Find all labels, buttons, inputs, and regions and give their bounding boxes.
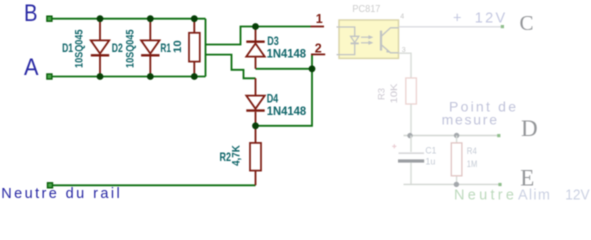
label C1 xyxy=(425,145,436,156)
junction R1 top xyxy=(191,15,198,22)
label + 12V xyxy=(453,11,506,27)
junction D4 bottom / R2 top xyxy=(252,122,259,129)
svg-text:1N4148: 1N4148 xyxy=(267,106,307,118)
svg-text:10SQ045: 10SQ045 xyxy=(74,30,86,69)
pin number 4 xyxy=(400,14,404,21)
svg-text:D2: D2 xyxy=(112,43,123,55)
svg-text:10SQ045: 10SQ045 xyxy=(125,30,137,69)
svg-text:10: 10 xyxy=(172,40,184,53)
label D2 xyxy=(112,43,123,55)
junction (faded) R4 bottom xyxy=(454,182,459,187)
junction R1 bottom xyxy=(191,73,198,80)
opto light arrows xyxy=(361,36,372,44)
junction (faded) R4 top xyxy=(454,133,459,138)
node B label xyxy=(24,0,38,27)
svg-text:C: C xyxy=(520,11,534,35)
svg-text:12V: 12V xyxy=(565,187,590,202)
label mesure xyxy=(442,112,498,128)
svg-text:mesure: mesure xyxy=(442,112,498,128)
wire riser x205.5 xyxy=(205,19,207,77)
junction D1 bottom xyxy=(97,73,104,80)
svg-text:R4: R4 xyxy=(467,146,477,157)
svg-text:D: D xyxy=(521,116,538,141)
pin number 1 (opto) xyxy=(311,12,325,27)
pin number 3 xyxy=(402,47,406,54)
diode D4 xyxy=(246,78,264,126)
junction D2 bottom xyxy=(147,73,154,80)
wire measure bus xyxy=(404,135,499,137)
label D1 xyxy=(62,43,73,55)
diode D2 xyxy=(141,19,159,77)
svg-text:C1: C1 xyxy=(425,145,436,156)
svg-text:Neutre: Neutre xyxy=(454,187,514,202)
port E xyxy=(520,166,534,191)
pin number 2 (opto) xyxy=(311,42,325,56)
svg-text:1: 1 xyxy=(316,12,323,26)
svg-text:1u: 1u xyxy=(425,156,435,167)
svg-text:+: + xyxy=(453,11,461,27)
wire pin3 to R3 xyxy=(399,53,411,78)
node Neutre du rail label xyxy=(1,186,120,202)
wire upper stub to D3 xyxy=(206,27,311,45)
label Alim xyxy=(518,187,550,203)
junction D1 top xyxy=(97,15,104,22)
svg-text:10K: 10K xyxy=(389,83,400,104)
svg-text:12V: 12V xyxy=(475,11,506,27)
svg-text:PC817: PC817 xyxy=(352,3,380,15)
port C xyxy=(520,11,534,35)
svg-text:4,7K: 4,7K xyxy=(231,145,243,166)
label D4 xyxy=(267,94,279,106)
svg-text:D1: D1 xyxy=(62,43,73,55)
svg-text:Alim: Alim xyxy=(518,187,550,202)
label Point de xyxy=(449,99,516,115)
junction pin2 node xyxy=(309,65,316,72)
value 1N4148 (D4) xyxy=(267,106,307,118)
svg-text:B: B xyxy=(24,0,38,27)
diode D3 xyxy=(246,27,264,69)
opto LED xyxy=(337,27,359,55)
junction (faded) C1/R3 xyxy=(407,133,412,138)
junction D2 top xyxy=(147,15,154,22)
svg-text:1N4148: 1N4148 xyxy=(267,49,307,61)
pin B xyxy=(47,16,52,21)
svg-text:R1: R1 xyxy=(160,43,171,55)
svg-text:R2: R2 xyxy=(220,152,232,164)
svg-text:A: A xyxy=(24,54,39,81)
svg-text:R3: R3 xyxy=(377,88,388,100)
label R4 xyxy=(467,146,477,157)
label Neutre (alim) xyxy=(454,187,514,203)
capacitor C1 xyxy=(392,136,424,185)
label R1 xyxy=(160,43,171,55)
value 4,7K (R2) xyxy=(231,145,243,166)
wire neutre alim bus xyxy=(404,183,500,185)
pin end +12V xyxy=(501,25,504,28)
node A label xyxy=(24,54,39,81)
wire right loop down xyxy=(256,69,313,126)
pin end D bus xyxy=(497,134,500,137)
label R3 xyxy=(377,88,388,100)
value 10K (R3) xyxy=(389,83,400,104)
opto transistor xyxy=(381,28,399,53)
label R2 xyxy=(220,152,232,164)
resistor R2 xyxy=(250,126,261,186)
wire A bottom rail xyxy=(52,76,206,78)
wire bottom rail from R2 xyxy=(53,184,256,186)
value 1M (R4) xyxy=(467,159,478,170)
resistor R3 xyxy=(406,78,417,134)
wire D3 bottom to pin2 riser xyxy=(256,54,313,68)
svg-text:4: 4 xyxy=(400,14,404,21)
diode D1 xyxy=(91,19,109,77)
value 1N4148 (D3) xyxy=(267,49,307,61)
wire lower stub staircase to D4 xyxy=(206,55,256,79)
value 10SQ045 (D1) xyxy=(74,30,86,69)
wire +12V (faded) xyxy=(399,26,502,28)
pin A xyxy=(47,74,52,79)
pin end E bus xyxy=(498,183,501,186)
svg-text:2: 2 xyxy=(315,42,322,56)
pin Neutre xyxy=(48,183,53,188)
value 1u (C1) xyxy=(425,156,435,167)
port D xyxy=(521,116,538,141)
resistor R4 xyxy=(451,136,462,185)
svg-text:Neutre du rail: Neutre du rail xyxy=(1,186,120,202)
opto U1 body xyxy=(339,20,399,58)
label D3 xyxy=(267,36,279,48)
svg-text:D3: D3 xyxy=(267,36,279,48)
value 10 (R1) xyxy=(172,40,184,53)
svg-text:1M: 1M xyxy=(467,159,478,170)
label 12V xyxy=(565,187,590,203)
wire B top rail xyxy=(52,18,206,20)
junction D3 top xyxy=(252,23,259,30)
svg-text:D4: D4 xyxy=(267,94,279,106)
resistor R1 xyxy=(189,19,200,77)
label PC817 xyxy=(352,3,380,15)
value 10SQ045 (D2) xyxy=(125,30,137,69)
